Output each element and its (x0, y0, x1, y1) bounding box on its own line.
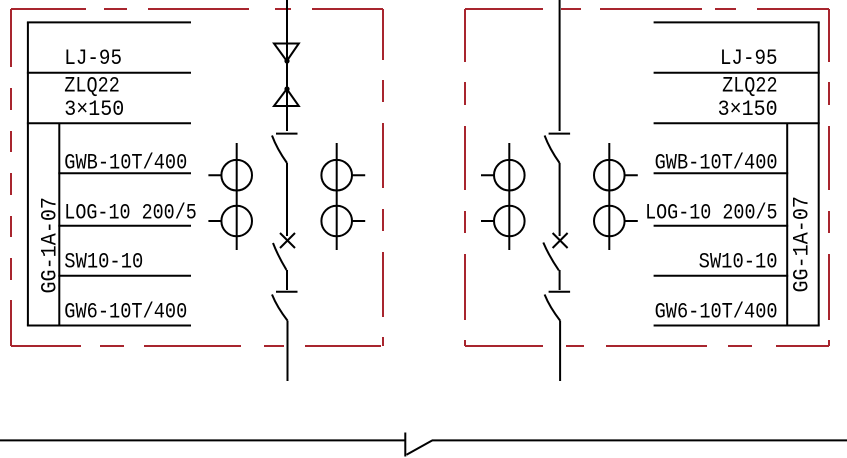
svg-text:SW10-10: SW10-10 (64, 250, 143, 275)
svg-text:GWB-10T/400: GWB-10T/400 (64, 151, 187, 176)
svg-text:LJ-95: LJ-95 (720, 46, 778, 71)
svg-text:GG-1A-07: GG-1A-07 (38, 197, 63, 294)
svg-text:LOG-10 200/5: LOG-10 200/5 (645, 201, 778, 226)
svg-text:LOG-10 200/5: LOG-10 200/5 (64, 201, 197, 226)
svg-text:3×150: 3×150 (718, 97, 778, 122)
svg-text:ZLQ22: ZLQ22 (64, 73, 120, 98)
svg-text:GG-1A-07: GG-1A-07 (790, 196, 815, 293)
svg-text:GWB-10T/400: GWB-10T/400 (655, 151, 778, 176)
svg-text:SW10-10: SW10-10 (699, 250, 778, 275)
svg-text:GW6-10T/400: GW6-10T/400 (64, 300, 187, 325)
svg-text:ZLQ22: ZLQ22 (722, 73, 778, 98)
svg-text:LJ-95: LJ-95 (64, 46, 122, 71)
svg-text:GW6-10T/400: GW6-10T/400 (655, 300, 778, 325)
svg-text:3×150: 3×150 (64, 97, 124, 122)
